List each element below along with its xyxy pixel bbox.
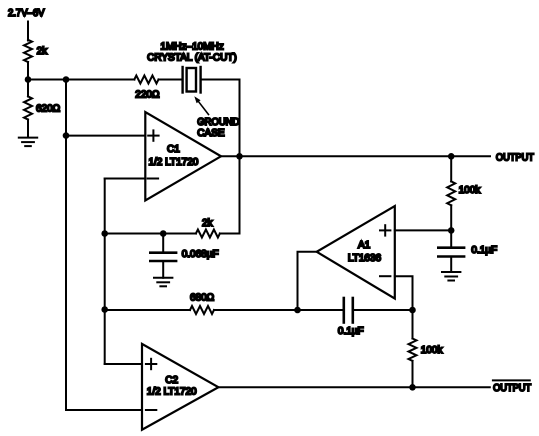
wire node H to R6 (105, 309, 190, 311)
svg-text:100k: 100k (421, 345, 444, 356)
node B (bias rail tap) (63, 76, 70, 83)
wire node G to C4 (450, 230, 452, 246)
wire C5 to node J (354, 309, 413, 311)
wire feedback vertical to output node (239, 156, 241, 233)
node D (RC node on bus) (101, 230, 108, 237)
svg-text:A1: A1 (358, 240, 371, 251)
svg-text:100k: 100k (459, 185, 482, 196)
ground case arrow (194, 96, 208, 114)
wire C1 inverting input (105, 178, 146, 180)
svg-text:2.7V–6V: 2.7V–6V (8, 8, 45, 19)
resistor R2 620ohm (24, 96, 61, 119)
label ground case (197, 117, 239, 139)
ground G2 (154, 278, 172, 287)
wire node J to R7 (412, 310, 414, 339)
wire C2 output to OUTPUT-bar (218, 386, 489, 388)
comparator C2 1/2 LT1720 (142, 344, 218, 430)
svg-text:2k: 2k (202, 218, 214, 229)
wire node A to R2 (27, 80, 29, 97)
node C (C1 output junction) (236, 153, 243, 160)
svg-text:1/2 LT1720: 1/2 LT1720 (148, 157, 198, 168)
ground G1 (19, 138, 37, 147)
capacitor C4 0.1uF (438, 245, 497, 257)
wire R6 to node I (214, 309, 343, 311)
capacitor C3 0.068uF (150, 249, 218, 261)
wire crystal to node C (202, 79, 240, 81)
wire node F to R5 (450, 156, 452, 181)
wire C2 inverting input from node B vertical (65, 80, 67, 411)
wire to C2 inverting input (66, 409, 142, 411)
wire A1 noninverting input (395, 229, 451, 231)
wire R2 to ground (27, 120, 29, 138)
op-amp A1 LT1636 (317, 206, 395, 299)
node I (A1 output junction) (294, 307, 301, 314)
ground G3 (442, 272, 460, 281)
node E (cap tap) (160, 230, 167, 237)
node A (divider tap) (25, 76, 32, 83)
resistor R4 2k feedback (196, 218, 220, 238)
resistor R1 2k (24, 40, 48, 62)
wire R3 to crystal (159, 79, 182, 81)
resistor R5 100k (447, 181, 481, 205)
resistor R7 100k (409, 339, 444, 361)
wire R4 to output node (220, 233, 240, 235)
wire supply rail (28, 79, 135, 81)
svg-text:C1: C1 (167, 144, 180, 155)
comparator C1 1/2 LT1720 (145, 112, 221, 201)
svg-text:C2: C2 (165, 375, 178, 386)
label OUTPUT-bar (493, 380, 531, 393)
node J (A1 - junction) (409, 307, 416, 314)
capacitor C5 0.1uF (338, 298, 364, 337)
svg-text:0.1µF: 0.1µF (338, 326, 364, 337)
wire feedback bus vertical (104, 179, 106, 365)
crystal Y1 1MHz-10MHz (183, 67, 201, 93)
wire C3 to ground (162, 262, 164, 278)
svg-text:CRYSTAL (AT-CUT): CRYSTAL (AT-CUT) (147, 52, 237, 63)
wire supply to R1 (27, 22, 29, 41)
wire C1 output to OUTPUT (221, 155, 490, 157)
wire A1 inverting input (395, 276, 413, 310)
node K (C2 output junction) (409, 384, 416, 391)
wire crystal branch down to output node (239, 80, 241, 157)
svg-text:LT1636: LT1636 (348, 253, 382, 264)
wire node B to C1 noninverting input (66, 135, 145, 137)
svg-text:1MHz–10MHz: 1MHz–10MHz (160, 41, 223, 52)
wire to C2 noninverting input (105, 363, 142, 365)
wire R7 to C2 output line (412, 361, 414, 387)
svg-text:220Ω: 220Ω (135, 90, 160, 101)
resistor R6 680ohm (190, 293, 215, 315)
wire R5 to node G (450, 205, 452, 230)
resistor R3 220ohm (134, 76, 160, 101)
wire R1 to node A (27, 62, 29, 80)
svg-text:OUTPUT: OUTPUT (496, 152, 534, 163)
svg-text:CASE: CASE (197, 128, 225, 139)
node G (A1 + input node) (448, 227, 455, 234)
svg-text:680Ω: 680Ω (190, 293, 215, 304)
wire A1 output (298, 252, 317, 310)
wire node D to R4 (105, 233, 196, 235)
node dot at C1 + input (63, 132, 70, 139)
node F (output RC junction) (448, 153, 455, 160)
svg-text:0.068µF: 0.068µF (182, 249, 219, 260)
svg-text:GROUND: GROUND (197, 117, 239, 128)
label crystal value (147, 41, 237, 63)
wire C4 to ground (450, 258, 452, 272)
svg-text:1/2 LT1720: 1/2 LT1720 (147, 387, 197, 398)
svg-text:OUTPUT: OUTPUT (493, 383, 531, 394)
wire node E to C3 (162, 234, 164, 252)
svg-text:0.1µF: 0.1µF (471, 245, 497, 256)
node H (bus to R6) (101, 306, 108, 313)
svg-text:2k: 2k (37, 46, 49, 57)
svg-text:620Ω: 620Ω (36, 104, 61, 115)
